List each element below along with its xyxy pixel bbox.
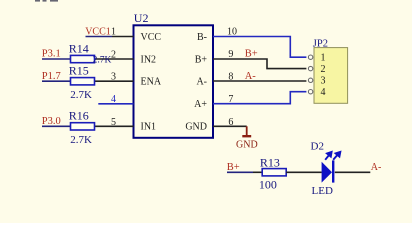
svg-text:R13: R13 (260, 156, 280, 170)
clipped text remnant at top edge (35, 0, 58, 2)
svg-text:D2: D2 (311, 141, 324, 153)
wire pin 10 B- to JP2 pin 1 (blue) (213, 37, 306, 58)
LED light arrow 2 (333, 152, 340, 160)
svg-text:A-: A- (371, 162, 382, 173)
svg-text:6: 6 (228, 117, 233, 128)
svg-text:R14: R14 (69, 41, 89, 55)
svg-text:VCC1: VCC1 (85, 27, 111, 38)
JP2 pin 3 circle (308, 78, 312, 82)
svg-text:2.7K: 2.7K (93, 55, 112, 65)
svg-text:GND: GND (185, 122, 207, 133)
svg-text:A-: A- (245, 71, 257, 82)
svg-text:B+: B+ (245, 49, 258, 60)
svg-text:5: 5 (111, 117, 116, 128)
JP2 pin 4 circle (308, 90, 312, 94)
svg-text:2.7K: 2.7K (70, 89, 92, 101)
resistor R16 body (71, 123, 95, 130)
pin 2 stub from R14 to chip (95, 58, 134, 60)
wire pin 4 (blue, unlabeled) (98, 103, 133, 105)
svg-text:3: 3 (321, 76, 326, 87)
R13 left pin stub (253, 171, 262, 173)
svg-text:1: 1 (111, 27, 116, 38)
svg-text:9: 9 (228, 49, 233, 60)
svg-text:VCC: VCC (141, 32, 162, 43)
svg-text:100: 100 (259, 178, 277, 192)
svg-text:4: 4 (321, 87, 326, 98)
svg-text:U2: U2 (134, 11, 149, 25)
wire pin 6 GND (213, 125, 247, 127)
svg-text:3: 3 (111, 72, 116, 83)
pin 3 stub from R15 to chip (95, 80, 134, 82)
LED D2 cathode bar (332, 160, 334, 182)
op-amp/driver chip U2 body (134, 25, 214, 138)
svg-text:B-: B- (197, 32, 207, 43)
svg-text:A-: A- (196, 77, 207, 88)
wire pin 8 A- to JP2 pin 3 (213, 80, 306, 82)
svg-text:2: 2 (111, 50, 116, 61)
wire B+ to R13 (227, 171, 253, 173)
svg-text:GND: GND (236, 140, 258, 151)
svg-text:8: 8 (228, 71, 233, 82)
svg-text:LED: LED (312, 185, 333, 197)
svg-text:2.7K: 2.7K (70, 134, 92, 146)
ground bar (242, 135, 251, 137)
svg-text:7: 7 (228, 94, 233, 105)
wire pin 7 A+ to JP2 pin 4 (blue) (213, 92, 306, 104)
wire P1.7 to R15 (42, 80, 71, 82)
svg-text:IN2: IN2 (141, 54, 157, 65)
svg-text:JP2: JP2 (313, 38, 328, 49)
wire LED cathode to A- (335, 171, 371, 173)
svg-text:A+: A+ (194, 99, 207, 110)
connector JP2 body (314, 48, 348, 104)
wire P3.0 to R16 (42, 125, 71, 127)
svg-text:10: 10 (227, 27, 237, 38)
LED D2 triangle (322, 162, 332, 183)
pin 1 black pin stub (112, 36, 134, 38)
wire VCC1 net (86, 36, 113, 38)
wire pin 9 B+ to JP2 pin 2 (213, 59, 306, 69)
svg-text:P3.1: P3.1 (42, 49, 61, 60)
svg-text:2: 2 (321, 64, 326, 75)
resistor R13 body (262, 169, 286, 176)
svg-text:B+: B+ (195, 54, 208, 65)
resistor R15 body (71, 78, 95, 85)
svg-text:4: 4 (111, 94, 116, 105)
svg-text:R15: R15 (69, 64, 89, 78)
LED light arrow 1 (325, 152, 331, 160)
resistor R14 body (71, 55, 95, 62)
svg-text:IN1: IN1 (141, 122, 157, 133)
JP2 pin 2 circle (308, 66, 312, 70)
wire R13 to LED anode (286, 171, 322, 173)
svg-text:P3.0: P3.0 (42, 116, 61, 127)
JP2 pin 1 circle (308, 55, 312, 59)
wire P3.1 to R14 (42, 58, 71, 60)
ground stem (246, 126, 248, 136)
pin 5 stub from R16 to chip (95, 125, 134, 127)
svg-text:R16: R16 (69, 109, 89, 123)
svg-text:1: 1 (321, 53, 326, 64)
svg-text:ENA: ENA (141, 77, 162, 88)
svg-text:P1.7: P1.7 (42, 71, 61, 82)
